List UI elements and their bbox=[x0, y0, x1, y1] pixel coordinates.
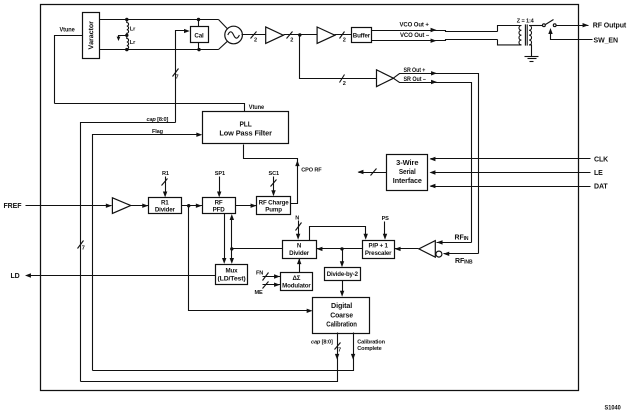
svg-text:Serial: Serial bbox=[399, 167, 416, 176]
wire SR Out + bbox=[393, 74, 478, 254]
wire VCO Out + bbox=[372, 31, 498, 32]
svg-text:Calibration: Calibration bbox=[357, 340, 385, 346]
svg-text:7: 7 bbox=[176, 75, 179, 81]
svg-text:Divide-by-2: Divide-by-2 bbox=[327, 271, 359, 278]
wire Cal to top rail bbox=[198, 20, 200, 27]
svg-text:VCO Out –: VCO Out – bbox=[400, 33, 430, 39]
wire tank top rail bbox=[100, 19, 219, 21]
bus slash 2 after A1 bbox=[287, 32, 293, 39]
bus slash 2 after A2 bbox=[340, 32, 345, 39]
varactor block bbox=[83, 13, 100, 59]
svg-text:Digital: Digital bbox=[331, 301, 352, 310]
wire Cal to bottom rail bbox=[198, 43, 200, 50]
wire divide-by-2 to coarse calibration bbox=[342, 281, 344, 294]
mux LD/test box bbox=[216, 265, 248, 285]
digital coarse calibration box bbox=[313, 298, 370, 334]
wire RF Output bbox=[557, 25, 589, 27]
bus slash on SC1 bbox=[271, 180, 277, 187]
wire SW_EN bbox=[551, 31, 593, 40]
amplifier FREF buffer bbox=[112, 198, 130, 214]
wire Vtune to varactor bbox=[55, 36, 83, 104]
wire tank taper top bbox=[219, 20, 228, 29]
junction node after A1 bbox=[298, 33, 301, 36]
svg-text:Pump: Pump bbox=[265, 207, 282, 214]
buffer U1 bbox=[352, 28, 372, 43]
svg-text:SR Out +: SR Out + bbox=[404, 68, 426, 74]
inductor tap arrow bbox=[119, 36, 127, 38]
inductor Lr lower bbox=[127, 35, 129, 49]
svg-text:DAT: DAT bbox=[594, 184, 608, 191]
svg-text:RFINB: RFINB bbox=[455, 258, 473, 266]
svg-text:7: 7 bbox=[82, 246, 85, 252]
wire cap bus upper run bbox=[81, 123, 176, 382]
junction node ref to calibration bbox=[187, 204, 190, 207]
amplifier SR driver bbox=[377, 70, 394, 87]
svg-text:RF Charge: RF Charge bbox=[259, 200, 290, 207]
svg-text:ΔΣ: ΔΣ bbox=[292, 275, 300, 282]
svg-text:RF Output: RF Output bbox=[593, 23, 627, 30]
wire ME input bbox=[263, 284, 281, 286]
wire VCO Out - bbox=[372, 40, 498, 41]
bus slash on R1 bbox=[162, 179, 168, 186]
wire node to SR path bbox=[300, 35, 377, 79]
svg-text:cap [8:0]: cap [8:0] bbox=[311, 340, 333, 346]
svg-text:Vtune: Vtune bbox=[249, 105, 265, 111]
wire secondary bottom to ground bbox=[529, 45, 531, 57]
svg-text:Modulator: Modulator bbox=[282, 282, 311, 289]
svg-text:SW_EN: SW_EN bbox=[594, 37, 618, 44]
svg-text:Complete: Complete bbox=[357, 346, 381, 352]
svg-text:CLK: CLK bbox=[594, 157, 608, 164]
wire SP1 arrow bbox=[219, 177, 221, 195]
wire N divider feedback to PFD and mux bbox=[232, 248, 283, 250]
RF charge pump box bbox=[257, 197, 291, 215]
capacitor bank Cal box bbox=[191, 27, 209, 43]
wire serial control bus bbox=[359, 172, 387, 174]
svg-text:SR Out –: SR Out – bbox=[404, 77, 427, 83]
svg-text:Coarse: Coarse bbox=[330, 310, 353, 319]
wire DAT bbox=[431, 186, 591, 188]
inductor Lr upper bbox=[127, 20, 129, 36]
svg-text:Mux: Mux bbox=[226, 268, 239, 275]
svg-text:R1: R1 bbox=[161, 200, 169, 207]
svg-text:RFIN: RFIN bbox=[455, 234, 469, 242]
P/P+1 prescaler box bbox=[363, 241, 395, 259]
3-wire serial interface box bbox=[387, 155, 428, 191]
bus slash 7 on cap left riser bbox=[78, 241, 84, 249]
wire A1 to node bbox=[284, 34, 317, 36]
svg-text:Cal: Cal bbox=[194, 33, 204, 40]
wire cap bus from calibration bbox=[81, 333, 338, 382]
svg-text:Low Pass Filter: Low Pass Filter bbox=[219, 129, 272, 138]
wire modulator to N divider bbox=[299, 259, 301, 273]
svg-text:FN: FN bbox=[256, 270, 263, 276]
svg-text:CPO RF: CPO RF bbox=[301, 168, 322, 174]
junction node prescaler output bbox=[340, 247, 343, 250]
wire Vtune rail to loop filter bbox=[55, 104, 245, 112]
wire Flag into loop filter bbox=[93, 135, 200, 371]
wire PFD down to mux bbox=[224, 214, 226, 262]
wire R1 divider to PFD bbox=[182, 205, 203, 207]
svg-text:7: 7 bbox=[338, 347, 341, 353]
svg-text:R1: R1 bbox=[162, 171, 169, 177]
svg-text:FREF: FREF bbox=[4, 203, 23, 210]
junction dot inductor bottom bbox=[125, 48, 128, 51]
svg-text:LD: LD bbox=[11, 273, 20, 280]
svg-text:VCO Out +: VCO Out + bbox=[400, 23, 430, 29]
RF PFD box bbox=[203, 198, 236, 214]
wire reference to coarse calibration bbox=[189, 206, 310, 311]
wire calibration complete bbox=[93, 333, 354, 371]
wire CLK bbox=[431, 158, 591, 160]
wire RFinB bbox=[444, 253, 479, 255]
outer border frame bbox=[41, 5, 579, 391]
bus slash on ME bbox=[263, 282, 269, 289]
wire PS arrow bbox=[384, 222, 386, 237]
wire loop filter to charge pump CPO bbox=[244, 145, 298, 204]
amplifier A1 bbox=[266, 27, 284, 43]
svg-text:Divider: Divider bbox=[155, 207, 176, 214]
bus slash on FN bbox=[263, 273, 269, 281]
wire RF buffer to prescaler bbox=[395, 248, 419, 250]
wire LD output bbox=[27, 275, 216, 277]
wire RFin bbox=[437, 242, 472, 244]
svg-text:(LD/Test): (LD/Test) bbox=[218, 275, 246, 282]
bus slash 7 on cap output bbox=[335, 343, 341, 350]
svg-text:LE: LE bbox=[594, 170, 603, 177]
svg-text:P/P + 1: P/P + 1 bbox=[369, 243, 389, 250]
wire N divider modulus to prescaler bbox=[310, 227, 366, 241]
ground symbol transformer bbox=[525, 56, 539, 58]
wire prescaler tap to divide-by-2 bbox=[342, 249, 344, 265]
N divider box bbox=[283, 241, 317, 259]
svg-text:Flag: Flag bbox=[152, 129, 164, 135]
svg-text:N: N bbox=[297, 243, 302, 250]
wire tank taper bottom bbox=[219, 41, 228, 49]
transformer T1 secondary winding bbox=[529, 26, 531, 45]
bus slash on control bus bbox=[371, 169, 377, 176]
wire FREF input bbox=[26, 205, 112, 207]
svg-text:2: 2 bbox=[343, 38, 346, 44]
transformer T1 primary winding bbox=[519, 26, 521, 45]
wire PFD to charge pump bbox=[236, 205, 257, 207]
bus slash 2 on SR path bbox=[340, 75, 345, 83]
junction dot Cal bottom bbox=[197, 48, 200, 51]
svg-text:2: 2 bbox=[290, 38, 293, 44]
svg-text:RF: RF bbox=[215, 200, 223, 207]
amplifier A2 bbox=[317, 27, 335, 43]
svg-text:Z = 1:4: Z = 1:4 bbox=[517, 19, 535, 25]
wire secondary top to switch bbox=[529, 25, 542, 27]
svg-text:2: 2 bbox=[254, 38, 257, 44]
svg-text:Interface: Interface bbox=[393, 176, 422, 185]
inverter bubble RFinB bbox=[436, 251, 442, 257]
wire VCO out bbox=[242, 34, 266, 36]
svg-text:ME: ME bbox=[255, 290, 264, 296]
svg-text:PFD: PFD bbox=[213, 207, 226, 214]
divide-by-2 box bbox=[325, 268, 361, 281]
wire R1 word arrow bbox=[165, 177, 167, 195]
svg-text:Buffer: Buffer bbox=[353, 32, 371, 39]
svg-text:SC1: SC1 bbox=[269, 171, 279, 177]
junction dot inductor mid bbox=[125, 34, 128, 37]
wire LE bbox=[431, 172, 591, 174]
svg-text:Divider: Divider bbox=[289, 250, 310, 257]
delta sigma modulator box bbox=[281, 273, 313, 291]
wire cap bus into Cal bbox=[176, 31, 187, 123]
svg-text:PLL: PLL bbox=[240, 119, 253, 128]
bus slash 2 after VCO bbox=[251, 32, 257, 39]
svg-text:2: 2 bbox=[343, 81, 346, 87]
svg-text:SP1: SP1 bbox=[215, 171, 225, 177]
svg-text:Vtune: Vtune bbox=[60, 28, 76, 34]
wire SR Out - bbox=[393, 78, 471, 242]
svg-text:Prescaler: Prescaler bbox=[365, 250, 392, 257]
svg-text:Calibration: Calibration bbox=[326, 319, 357, 328]
wire FN input bbox=[263, 276, 281, 278]
varactor label bbox=[88, 21, 93, 49]
svg-text:cap [8:0]: cap [8:0] bbox=[147, 117, 169, 123]
PLL low pass filter box bbox=[203, 112, 289, 144]
wire tank bottom rail bbox=[100, 49, 219, 51]
transformer T1 primary connection bbox=[498, 26, 522, 32]
bus slash 7 on Cal feed bbox=[173, 69, 179, 77]
svg-text:3-Wire: 3-Wire bbox=[396, 158, 418, 167]
transformer T1 core bbox=[524, 24, 526, 45]
wire prescaler to N divider bbox=[317, 248, 363, 250]
R1 divider box bbox=[149, 198, 182, 214]
oscillator VCO core bbox=[225, 26, 243, 44]
junction dot inductor top bbox=[125, 18, 128, 21]
switch SW contacts bbox=[543, 24, 546, 27]
bus slash on N bbox=[296, 223, 302, 231]
svg-text:S1040: S1040 bbox=[605, 405, 621, 412]
junction dot Cal top bbox=[197, 18, 200, 21]
arrow CPO RF up bbox=[295, 160, 299, 166]
wire buffer to R1 divider bbox=[131, 205, 149, 207]
wire A2 to buffer bbox=[335, 34, 352, 36]
svg-text:PS: PS bbox=[382, 216, 390, 222]
wire SC1 arrow bbox=[273, 177, 275, 193]
wire N word arrow bbox=[298, 221, 300, 237]
RF input buffer triangle bbox=[419, 241, 435, 258]
switch SW blade bbox=[546, 20, 554, 25]
